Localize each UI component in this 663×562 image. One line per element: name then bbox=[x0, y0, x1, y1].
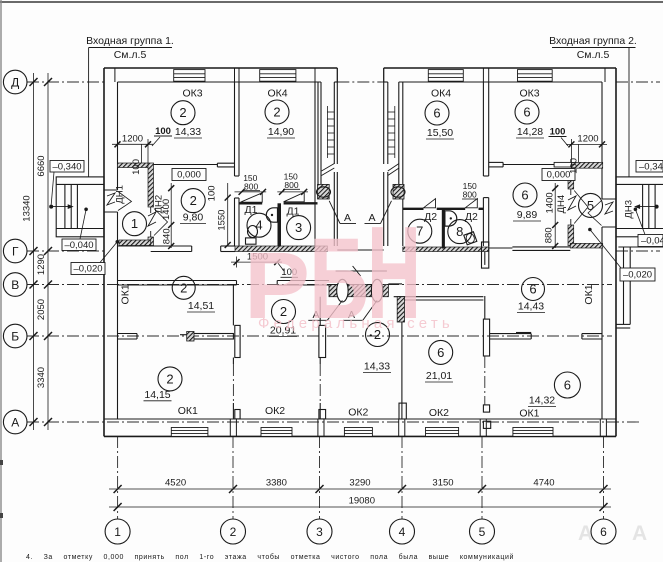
porch 2 outer outline bbox=[616, 177, 663, 237]
wall stub at y163 left room bbox=[217, 162, 234, 164]
door DN2 swing lines bbox=[154, 209, 168, 236]
top wall windows bbox=[174, 70, 553, 82]
svg-text:2: 2 bbox=[190, 193, 197, 208]
axis circle А bbox=[3, 410, 27, 434]
svg-text:1290: 1290 bbox=[36, 254, 47, 275]
top boundary of room 9,89 bbox=[503, 164, 554, 166]
window OK3 top-right2 bbox=[518, 70, 553, 82]
bottom band wall axis4 hatched top bbox=[397, 297, 404, 322]
axis circle 2 bbox=[221, 519, 246, 544]
axis circle 1 bbox=[105, 519, 130, 544]
svg-text:6: 6 bbox=[437, 345, 444, 360]
vestibule 5 hatched bottom wall bbox=[570, 243, 602, 248]
shaft hatched block top-left bbox=[318, 184, 330, 199]
shaft ellipse bottom-left bbox=[337, 279, 348, 302]
top wall inner right section bbox=[384, 81, 388, 83]
WC room 4 bbox=[248, 226, 258, 238]
svg-text:–0,340: –0,340 bbox=[52, 162, 81, 173]
corridor top wall hatched band right bbox=[403, 247, 489, 252]
bottom wall inner bbox=[104, 418, 616, 420]
door DN4 swing lines bbox=[574, 191, 588, 224]
bottom band wall axis3 dash segment bbox=[319, 364, 321, 403]
door DN1 opening zigzag in left exterior wall bbox=[104, 190, 118, 212]
bottom wall windows bbox=[171, 428, 553, 437]
svg-text:880: 880 bbox=[543, 227, 554, 243]
axis circle 4 bbox=[390, 519, 415, 544]
bottom band wall axis2 bbox=[233, 285, 325, 419]
svg-text:ОК2: ОК2 bbox=[348, 407, 368, 419]
svg-text:4. За отметку 0,000 принять п: 4. За отметку 0,000 принять пол 1-го эта… bbox=[26, 553, 514, 561]
svg-text:3290: 3290 bbox=[349, 478, 370, 489]
door D1 room3 leaf bbox=[284, 192, 305, 202]
porch 2 direction arrow bbox=[655, 205, 659, 209]
svg-text:–0,34: –0,34 bbox=[639, 162, 663, 173]
porch 2 lower walls bbox=[616, 247, 663, 328]
axis line 4 vertical bbox=[401, 436, 403, 519]
svg-text:14,90: 14,90 bbox=[268, 126, 294, 138]
stair shaft left walls bbox=[315, 68, 403, 246]
axis line 3 vertical bbox=[319, 436, 321, 519]
svg-text:Федеральная сеть: Федеральная сеть bbox=[258, 315, 454, 332]
top wall outer right section bbox=[384, 67, 616, 69]
window OK1 bottom5 bbox=[513, 428, 553, 437]
svg-text:–0,04: –0,04 bbox=[641, 236, 663, 247]
svg-text:2: 2 bbox=[273, 105, 280, 120]
elevation box -0,020 right with leader bbox=[588, 228, 592, 232]
svg-text:1: 1 bbox=[114, 525, 121, 539]
svg-text:13340: 13340 bbox=[22, 195, 33, 221]
top wall outer left section bbox=[104, 67, 337, 69]
B-axis wall stub right column bbox=[490, 333, 602, 340]
left wall outer bbox=[103, 68, 105, 436]
axis circle 3 bbox=[307, 519, 332, 544]
svg-text:1: 1 bbox=[131, 216, 138, 231]
svg-text:Входная группа 1.: Входная группа 1. bbox=[86, 35, 174, 47]
svg-text:См.л.5: См.л.5 bbox=[577, 49, 610, 61]
elevation box -0,04 right cut with dot bbox=[634, 208, 638, 212]
svg-text:4520: 4520 bbox=[165, 478, 186, 489]
svg-text:4: 4 bbox=[255, 218, 262, 233]
bottom wall junction ticks bbox=[229, 419, 231, 436]
dim 1200 room5 right bbox=[566, 139, 607, 162]
window OK3 top-left bbox=[174, 70, 205, 82]
dim 1550/100 room 9,80 bbox=[227, 183, 229, 246]
dim 1200 room1 bbox=[112, 139, 153, 163]
door D2 room8 leaf bbox=[465, 199, 477, 208]
svg-text:А: А bbox=[578, 522, 593, 545]
svg-text:5: 5 bbox=[587, 198, 594, 213]
svg-text:2: 2 bbox=[180, 280, 187, 295]
dim 100 vertical room5 bbox=[578, 144, 580, 162]
axis line А bbox=[27, 421, 640, 423]
axis line 6 vertical bbox=[603, 436, 605, 519]
corridor top wall bbox=[118, 246, 571, 252]
svg-text:840: 840 bbox=[162, 228, 173, 244]
svg-text:Б: Б bbox=[11, 330, 19, 344]
porch 1 outer outline bbox=[56, 177, 104, 237]
axis circle В bbox=[3, 273, 27, 297]
svg-text:15,50: 15,50 bbox=[427, 127, 453, 139]
elevation box -0,020 left with leader bbox=[116, 240, 120, 244]
window OK2 bottom3 bbox=[344, 428, 372, 437]
corridor break line with zigzag bbox=[336, 266, 387, 276]
axis line 5 vertical bbox=[481, 436, 483, 519]
window OK1 bottom1 bbox=[171, 428, 208, 437]
axis line Б bbox=[27, 335, 612, 337]
left wall inner bbox=[117, 82, 119, 190]
B-axis wall stub left column bbox=[118, 334, 234, 340]
svg-text:Д2: Д2 bbox=[465, 211, 478, 223]
svg-text:ДН1: ДН1 bbox=[114, 185, 125, 204]
svg-text:6660: 6660 bbox=[36, 155, 47, 176]
svg-text:–0,020: –0,020 bbox=[73, 264, 102, 275]
vestibule 5 hatched left wall upper bbox=[568, 179, 574, 189]
window OK4 top-left2 bbox=[260, 70, 296, 82]
svg-text:ОК4: ОК4 bbox=[431, 88, 451, 100]
corridor bottom wall bbox=[118, 281, 484, 301]
shaft break mark left bbox=[322, 164, 335, 176]
elevation box -0,340 left bbox=[50, 161, 84, 173]
dim 1400/840 room1 bbox=[170, 183, 172, 248]
elevation box 0,000 left bbox=[172, 169, 206, 181]
shaft break mark right bbox=[388, 164, 399, 176]
shaft ellipse top-right bbox=[391, 187, 405, 197]
vestibule 1 hatched top wall bbox=[118, 163, 149, 168]
svg-text:2: 2 bbox=[166, 371, 173, 386]
svg-text:–0,020: –0,020 bbox=[623, 270, 652, 281]
interior wall between OK4 and OK3 right bbox=[482, 82, 484, 176]
axis circle 6 bbox=[591, 519, 616, 544]
left dimension texts bbox=[22, 155, 48, 388]
vestibule 5 hatched left wall lower bbox=[568, 225, 574, 246]
svg-text:См.л.5: См.л.5 bbox=[114, 49, 147, 61]
wall stub at y163 right room bbox=[489, 161, 503, 163]
toilet block left top wall bbox=[239, 202, 318, 204]
svg-text:А: А bbox=[632, 522, 647, 545]
svg-text:100: 100 bbox=[155, 126, 171, 137]
svg-text:1550: 1550 bbox=[217, 210, 228, 231]
corridor bottom hatched band with shafts bbox=[329, 285, 388, 297]
door DN1 swing lines bbox=[118, 192, 132, 211]
svg-text:8: 8 bbox=[456, 224, 463, 239]
svg-text:4740: 4740 bbox=[533, 478, 554, 489]
svg-text:100: 100 bbox=[569, 158, 580, 174]
svg-text:9,89: 9,89 bbox=[517, 209, 538, 221]
svg-text:0,000: 0,000 bbox=[547, 170, 571, 181]
vestibule 1 hatched bottom wall bbox=[119, 240, 151, 246]
svg-text:21,01: 21,01 bbox=[426, 370, 452, 382]
svg-text:800: 800 bbox=[463, 190, 477, 200]
bottom band wall axis5 bbox=[482, 242, 491, 428]
sink room 4 bbox=[266, 208, 277, 222]
svg-text:100: 100 bbox=[131, 159, 142, 175]
entrance group 2 leader bbox=[628, 48, 630, 177]
sink room 8 bbox=[445, 211, 457, 226]
svg-text:2050: 2050 bbox=[36, 299, 47, 320]
entrance group 1 leader bbox=[88, 48, 90, 177]
WC room 8 bbox=[464, 232, 477, 245]
door D1 room4 leaf bbox=[241, 193, 263, 202]
elevation box -0,040 left with dot leader bbox=[84, 208, 88, 212]
svg-text:В: В bbox=[11, 278, 19, 292]
axis circle Б bbox=[3, 324, 27, 348]
door DN2 break zigzag bbox=[148, 207, 156, 237]
top boundary of room 9,80 bbox=[154, 164, 218, 166]
B-axis hatched block left bbox=[187, 332, 194, 342]
bottom dimension ticks bbox=[114, 485, 608, 511]
door DN4 break zigzag bbox=[568, 189, 576, 225]
shaft ellipse bottom-right bbox=[371, 279, 382, 302]
svg-text:100: 100 bbox=[550, 127, 566, 138]
door DN3 opening zigzag in right exterior wall bbox=[602, 199, 616, 227]
room 21,01 top wall bbox=[394, 296, 484, 298]
building exterior walls bbox=[104, 68, 616, 436]
svg-text:14,33: 14,33 bbox=[364, 361, 390, 373]
shaft hatched block top-right bbox=[393, 184, 404, 199]
left dimension ticks bbox=[30, 78, 53, 426]
axis line 1 vertical bbox=[117, 436, 119, 519]
top wall inner left section bbox=[118, 81, 322, 83]
dim 1500 corridor bbox=[231, 257, 282, 268]
border frame top bbox=[0, 1, 663, 3]
shaft ellipse top-left bbox=[317, 187, 331, 197]
toilet partition right (rooms 7/8) bbox=[442, 209, 445, 249]
room circles with numbers and areas bbox=[123, 100, 603, 398]
svg-text:А: А bbox=[11, 416, 19, 430]
svg-text:14,15: 14,15 bbox=[144, 389, 170, 401]
svg-text:6: 6 bbox=[521, 188, 528, 203]
dim 150/800 toilet pair left2 bbox=[277, 191, 308, 193]
toilet block right top wall bbox=[403, 208, 484, 210]
stair shaft right walls bbox=[383, 68, 385, 164]
axis circle Д bbox=[3, 70, 27, 94]
svg-text:Входная группа 2.: Входная группа 2. bbox=[549, 35, 637, 47]
svg-text:14,43: 14,43 bbox=[518, 301, 544, 313]
svg-text:4: 4 bbox=[399, 525, 406, 539]
svg-text:5: 5 bbox=[479, 525, 486, 539]
bottom dimension lines bbox=[109, 489, 611, 507]
bottom dimension texts bbox=[165, 478, 555, 507]
svg-text:6: 6 bbox=[523, 105, 530, 120]
svg-text:ОК3: ОК3 bbox=[519, 88, 539, 100]
svg-text:6: 6 bbox=[600, 525, 607, 539]
axis line Г bbox=[27, 250, 104, 252]
svg-text:100: 100 bbox=[207, 185, 218, 201]
axis circle Г bbox=[3, 239, 27, 263]
porch 1 direction arrow bbox=[49, 205, 53, 209]
svg-text:14,51: 14,51 bbox=[188, 300, 214, 312]
svg-text:ОК4: ОК4 bbox=[267, 88, 287, 100]
svg-text:ОК2: ОК2 bbox=[429, 407, 449, 419]
svg-text:1200: 1200 bbox=[122, 134, 143, 145]
svg-text:1200: 1200 bbox=[577, 134, 598, 145]
porch 2 stair treads bbox=[642, 184, 644, 228]
axis line Д bbox=[27, 81, 104, 83]
section label A top pair bbox=[344, 212, 376, 224]
bottom band wall axis3 bbox=[319, 297, 321, 326]
svg-text:ДН4: ДН4 bbox=[556, 195, 567, 214]
left dimension chain lines bbox=[34, 73, 49, 430]
vestibule 1 hatched right wall lower bbox=[148, 237, 154, 246]
svg-text:0,000: 0,000 bbox=[177, 170, 201, 181]
svg-text:2: 2 bbox=[179, 105, 186, 120]
svg-text:14,28: 14,28 bbox=[517, 126, 543, 138]
svg-text:–0,040: –0,040 bbox=[64, 240, 93, 251]
svg-text:ДН2: ДН2 bbox=[154, 195, 165, 214]
dim 100 vertical room1 bbox=[141, 144, 143, 163]
svg-text:9,80: 9,80 bbox=[183, 212, 204, 224]
svg-text:ОК1: ОК1 bbox=[583, 284, 595, 304]
svg-text:ОК2: ОК2 bbox=[265, 405, 285, 417]
axis circle 5 bbox=[470, 519, 495, 544]
svg-text:ОК1: ОК1 bbox=[120, 284, 132, 304]
svg-text:6: 6 bbox=[529, 282, 536, 297]
bottom wall outer bbox=[104, 435, 616, 437]
shaft ladder rungs right bbox=[388, 111, 395, 113]
svg-text:19080: 19080 bbox=[349, 496, 375, 507]
interior wall between OK3 and OK4 left bbox=[154, 82, 555, 246]
dim 150/800 toilet pair left1 bbox=[235, 191, 267, 193]
svg-text:Д: Д bbox=[11, 76, 19, 90]
area values with underlines bbox=[144, 126, 555, 407]
svg-text:3380: 3380 bbox=[266, 478, 287, 489]
svg-text:3: 3 bbox=[316, 525, 323, 539]
svg-text:Г: Г bbox=[12, 245, 19, 259]
door DN3 swing lines bbox=[588, 201, 602, 226]
svg-text:ДН3: ДН3 bbox=[624, 200, 635, 219]
svg-text:14,32: 14,32 bbox=[529, 395, 555, 407]
svg-text:800: 800 bbox=[284, 180, 298, 190]
border frame left bbox=[0, 0, 2, 562]
svg-text:2: 2 bbox=[230, 525, 237, 539]
axis line В bbox=[27, 284, 612, 286]
right wall outer bbox=[615, 68, 617, 436]
shaft ladder rungs left bbox=[327, 106, 394, 158]
door D2 room7 leaf bbox=[424, 199, 436, 208]
axis line 2 vertical bbox=[232, 436, 234, 519]
svg-text:ОК1: ОК1 bbox=[178, 405, 198, 417]
porch 1 stair treads bbox=[64, 184, 66, 228]
elevation box -0,34 right cut bbox=[636, 161, 663, 173]
window OK4 top-right bbox=[428, 70, 463, 82]
watermark RBN bbox=[244, 199, 454, 346]
dim 100 corridor leader bbox=[277, 262, 284, 271]
toilet partition left (rooms 4/3) bbox=[278, 203, 282, 246]
svg-text:1400: 1400 bbox=[545, 192, 556, 213]
vestibule 5 hatched top wall bbox=[571, 162, 602, 168]
vestibule 5 top wall extension rect bbox=[554, 162, 571, 167]
dim 1400/880 room5 bbox=[554, 183, 556, 248]
watermark grey letters bottom right bbox=[578, 522, 647, 545]
right wall inner bbox=[601, 82, 603, 199]
top wall junction ticks bbox=[115, 68, 607, 436]
window OK2 bottom2 bbox=[261, 428, 292, 437]
window OK2 bottom4 bbox=[426, 428, 459, 437]
svg-text:3150: 3150 bbox=[432, 478, 453, 489]
svg-text:6: 6 bbox=[433, 106, 440, 121]
svg-text:6: 6 bbox=[564, 378, 571, 393]
vestibule 1 hatched right wall upper bbox=[148, 163, 154, 207]
svg-text:ОК3: ОК3 bbox=[182, 88, 202, 100]
svg-text:3340: 3340 bbox=[36, 367, 47, 388]
corridor top wall hatched band left bbox=[235, 246, 327, 252]
svg-text:14,33: 14,33 bbox=[175, 126, 201, 138]
section label A bottom pair bbox=[313, 309, 356, 321]
elevation box 0,000 right bbox=[542, 169, 575, 181]
svg-text:ОК1: ОК1 bbox=[519, 408, 539, 420]
svg-text:800: 800 bbox=[244, 182, 258, 192]
